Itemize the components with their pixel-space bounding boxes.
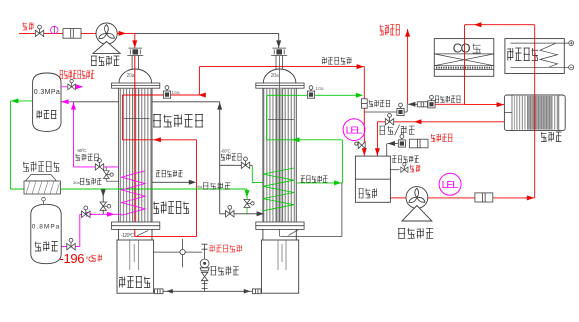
wire mid to valve bbox=[220, 164, 253, 166]
wire red main drop x364 bbox=[363, 67, 365, 99]
wire vaporized N2 riser mid bbox=[219, 102, 221, 214]
wire fan2 outlet red bbox=[428, 197, 535, 199]
relief on LN2 tank bbox=[43, 201, 45, 204]
valve on inlet line bbox=[35, 25, 43, 37]
stack discharge line 达标排放 bbox=[407, 29, 409, 104]
silencer on inlet line bbox=[63, 29, 81, 39]
column1 bottom flange bbox=[112, 222, 160, 229]
wire red col1 top outlet bbox=[122, 94, 199, 96]
wire red riser to header bbox=[198, 67, 200, 95]
arrow magenta up to return line bbox=[73, 102, 75, 167]
analyzer LEL circle 1 bbox=[343, 119, 365, 141]
column2 dome bbox=[263, 69, 296, 83]
overtemp vent line arrow bbox=[408, 102, 415, 107]
valve high conc inlet bbox=[398, 135, 405, 148]
svg-text:20a: 20a bbox=[127, 73, 135, 79]
column2 mid partition line bbox=[268, 119, 294, 121]
svg-text:30a: 30a bbox=[73, 180, 80, 185]
label 气化氮气 col1 left bbox=[75, 154, 98, 161]
label 液氮蒸冷器 bbox=[153, 202, 189, 214]
svg-text:-196: -196 bbox=[60, 251, 85, 266]
svg-text:-60°C: -60°C bbox=[221, 148, 232, 153]
electric heater box 电加热器 bbox=[505, 39, 564, 74]
svg-text:LEL: LEL bbox=[346, 125, 363, 137]
drain cross fitting bbox=[182, 239, 184, 267]
label 氧化风机 bbox=[398, 228, 433, 238]
wire red into col1 mid with arrow bbox=[122, 139, 196, 141]
label 废气风机 bbox=[91, 56, 119, 66]
backflush vent component 反吹排放 bbox=[361, 99, 367, 108]
fan 废气风机 bbox=[96, 23, 117, 44]
wire green loop right col2 bbox=[341, 140, 343, 183]
wire green from N2 tank left bbox=[10, 100, 32, 102]
butterfly valve on column1 nozzle bbox=[127, 48, 143, 55]
high conc gas inlet silencer bbox=[410, 139, 429, 148]
wire red crosses electric heater bbox=[534, 39, 536, 74]
svg-text:0.3MPa: 0.3MPa bbox=[34, 89, 60, 96]
column1 skirt bbox=[119, 229, 152, 240]
condensate tank1 冷凝液罐 bbox=[117, 240, 154, 293]
label 化霜后氮气 col1 bbox=[156, 170, 183, 177]
label 达标排放 (red) bbox=[380, 25, 400, 35]
heater element + terminals bbox=[511, 41, 574, 70]
wire backflush branch bbox=[364, 111, 407, 113]
valve feed/recycle bbox=[385, 114, 393, 126]
wire top header black to column2 bbox=[135, 32, 279, 34]
fitting right on header bbox=[252, 289, 261, 294]
wire red frame right col1 bbox=[196, 140, 198, 237]
valve below LEL1 bbox=[355, 142, 366, 149]
label 冷凝液罐 bbox=[119, 277, 150, 288]
label 多余氮气入缓冲罐 (red) bbox=[60, 70, 95, 79]
defrost heater hatched box bbox=[24, 181, 61, 194]
valve on branch col1 bbox=[100, 202, 111, 210]
wire red riser right bbox=[534, 25, 536, 198]
wire coil2 feed line bbox=[220, 213, 264, 215]
wire red drop continues to mix tank bbox=[363, 108, 365, 156]
wire red core line through column1 bbox=[134, 56, 136, 237]
valve on defrost drop bbox=[244, 199, 254, 207]
wire red CO furnace to HX inlet bbox=[465, 104, 505, 106]
branch joins LN2 line bbox=[102, 210, 104, 215]
wire green defrost header bbox=[10, 188, 247, 190]
wire green to right with arrow bbox=[315, 94, 361, 96]
label 超温时排放 bbox=[435, 96, 461, 103]
mixing tank 混气罐 bbox=[355, 156, 390, 202]
column1 shell with tube bundle bbox=[119, 88, 152, 222]
label 超温时补风 bbox=[392, 156, 419, 163]
wire green defrost outlet col2 bbox=[296, 182, 342, 184]
CO furnace box bbox=[434, 39, 494, 77]
break diagonal col2 bbox=[289, 230, 299, 236]
tank2 dip tube bbox=[278, 240, 286, 270]
wire red down into CO furnace bbox=[464, 25, 466, 105]
label 气化氮气 mid bbox=[221, 154, 242, 161]
silencer overtemp vent bbox=[417, 102, 427, 107]
svg-text:LEL: LEL bbox=[442, 179, 459, 191]
defrost heater trapezoid bbox=[26, 175, 57, 182]
label 电加热器 bbox=[507, 48, 538, 61]
branch black arrow down from green header bbox=[102, 189, 104, 203]
coil2 green zigzag bbox=[263, 168, 294, 211]
svg-text:30a: 30a bbox=[196, 184, 203, 189]
column2 shell with tube bundle bbox=[263, 88, 296, 222]
fitting left on header bbox=[155, 289, 164, 294]
label 冷量回收器 bbox=[153, 115, 203, 128]
label 空气 (red) bbox=[410, 165, 420, 172]
label 高浓废气 (red) bbox=[431, 134, 453, 142]
svg-text:20a: 20a bbox=[271, 73, 279, 79]
CO furnace grate dots bbox=[436, 67, 492, 69]
break diagonal col1 bbox=[137, 231, 148, 236]
excess N2 stub+valve bbox=[61, 86, 68, 88]
label 化霜后氮气 col2 bbox=[301, 176, 328, 183]
wire magenta from LN2 tank bbox=[61, 246, 80, 248]
wire waste-gas inlet (red) bbox=[19, 32, 96, 34]
analyzer LEL circle 2 bbox=[439, 173, 461, 195]
column2 center pipe gray bbox=[276, 88, 282, 222]
column1 nozzle pipe bbox=[132, 56, 138, 69]
wire black drop into column2 nozzle bbox=[278, 33, 280, 48]
column2 nozzle pipe bbox=[276, 56, 282, 69]
wire mix tank to fan red bbox=[390, 197, 406, 199]
wire red overtemp vent to T bbox=[435, 103, 464, 105]
wire red inner riser col1 bbox=[121, 95, 123, 140]
label 冷凝液泵槽 (red) bbox=[210, 245, 242, 252]
fan2 pedestal bbox=[402, 206, 432, 222]
svg-text:10a: 10a bbox=[172, 90, 180, 95]
wire nitrogen return line black bbox=[70, 101, 118, 103]
arrow magenta into N2 tank bbox=[61, 99, 68, 104]
fan 氧化风机 bbox=[406, 187, 428, 209]
label 冷凝液泵 bbox=[211, 267, 239, 276]
wire red crosses HX vertical bbox=[534, 95, 536, 131]
control valve instrument col2 bbox=[307, 86, 314, 99]
column1 center pipe bbox=[132, 88, 138, 222]
label 反吹排放 bbox=[369, 100, 390, 107]
wire green drop to col2 coil top bbox=[251, 165, 253, 182]
valve on backflush branch bbox=[397, 103, 404, 116]
fan pedestal bbox=[93, 42, 120, 54]
label 预冷后废气 bbox=[322, 57, 351, 64]
svg-text:-120°C: -120°C bbox=[121, 233, 134, 239]
wire condensate bottom header bbox=[154, 290, 262, 292]
wire red drop into column1 nozzle bbox=[134, 33, 136, 48]
column2 skirt bbox=[263, 229, 296, 240]
wire red drop to mix tank 2 bbox=[376, 122, 378, 156]
valve on magenta line col1 bbox=[95, 159, 103, 171]
wire red frame bottom col1 bbox=[135, 236, 197, 238]
green arrow down from defrost header bbox=[245, 190, 250, 197]
arrow right on header bbox=[244, 289, 251, 294]
valve at LN2 tank outlet bbox=[67, 238, 75, 250]
wire defrost drop joins coil2 feed bbox=[246, 208, 248, 214]
svg-text:10a: 10a bbox=[316, 86, 324, 91]
wire green down left edge bbox=[9, 101, 11, 189]
pump 冷凝液泵 bbox=[200, 244, 209, 291]
valve on LN2 feed bbox=[82, 206, 90, 218]
column2 top flange bbox=[256, 83, 304, 88]
column2 bottom flange bbox=[256, 222, 304, 229]
heat exchanger body bbox=[504, 95, 565, 131]
svg-text:0.8MPa: 0.8MPa bbox=[32, 224, 60, 231]
wire red top return to CO furnace bbox=[465, 24, 535, 26]
wire red crosses CO furnace bbox=[464, 39, 466, 77]
label 补料/循环 bbox=[379, 126, 393, 135]
wire branch up to vent line bbox=[406, 104, 408, 112]
wire green into col2 mid with arrow bbox=[267, 139, 343, 141]
svg-text:CO: CO bbox=[453, 41, 471, 56]
column1 mid partition line bbox=[124, 118, 150, 120]
wire black frame col2 bbox=[341, 183, 343, 237]
label 氮气罐 bbox=[37, 111, 57, 119]
wire green col2 top outlet bbox=[267, 94, 307, 96]
label 混气罐 bbox=[359, 189, 377, 199]
coil1 magenta zigzag 液氮蒸冷器 bbox=[122, 171, 146, 216]
vessel 液氮罐 bbox=[31, 204, 61, 263]
wire high conc to tank bbox=[387, 143, 398, 145]
wire red header to right section with arrow bbox=[199, 66, 364, 68]
label 换热器 bbox=[541, 132, 561, 142]
label 化霜加热器 bbox=[23, 162, 59, 172]
stub valve line from magenta to col1 shell bbox=[105, 167, 107, 181]
wire magenta vaporized N2 to col1 bbox=[74, 166, 119, 168]
flow indicator (magenta circle) bbox=[51, 26, 58, 33]
valve on vaporized N2 line col2 bbox=[241, 157, 249, 169]
butterfly valve on column2 nozzle bbox=[271, 48, 287, 55]
valve on coil2 feed bbox=[226, 206, 234, 218]
vessel 氮气罐 bbox=[33, 73, 61, 131]
wire green inner riser col2 bbox=[266, 95, 268, 140]
silencer on fan2 outlet bbox=[475, 193, 493, 202]
tank1 dip tube bbox=[130, 240, 139, 270]
label 液氮罐 bbox=[35, 242, 58, 252]
wire fan outlet red with arrow bbox=[117, 32, 135, 34]
wire red return from HX bbox=[377, 121, 505, 123]
column1 top flange bbox=[112, 83, 160, 88]
label 废气 (red) bbox=[23, 23, 34, 31]
arrow left on header bbox=[166, 289, 173, 294]
wire magenta LN2 riser bbox=[79, 214, 81, 246]
svg-text:-60°C: -60°C bbox=[77, 148, 88, 153]
wire magenta LN2 feed to coil1 bbox=[80, 213, 122, 215]
column1 dome bbox=[119, 69, 152, 83]
air makeup stub bbox=[390, 169, 399, 171]
wire col1 defrost outlet black arrow bbox=[152, 181, 193, 183]
condensate tank2 bbox=[262, 240, 299, 293]
control valve instrument col1 bbox=[163, 86, 170, 99]
valve overtemp vent bbox=[428, 95, 435, 108]
